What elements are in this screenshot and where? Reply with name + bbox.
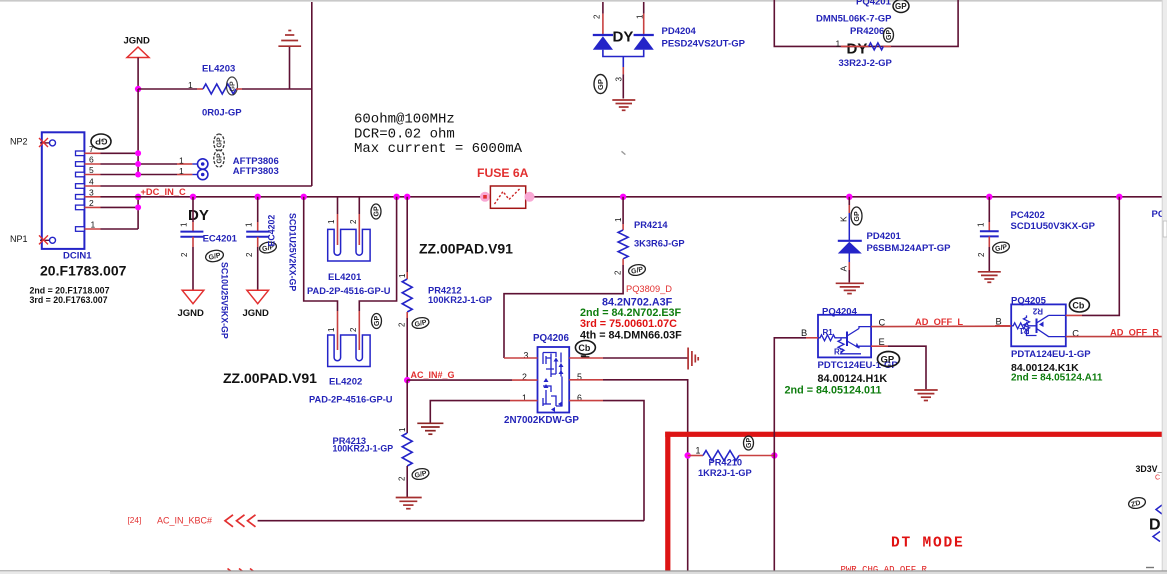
- stamp near PD4204 ground: [594, 75, 607, 94]
- stamp near EC4201: [205, 249, 225, 264]
- ground earth PQ4204 E: [914, 390, 938, 401]
- svg-text:GP: GP: [217, 137, 224, 147]
- svg-text:1: 1: [179, 156, 184, 166]
- stamp bottom right: [1128, 496, 1147, 510]
- NP2 no-pop marker: [10, 137, 56, 148]
- svg-text:2: 2: [89, 198, 94, 208]
- ground JGND EC4202: [243, 290, 270, 319]
- wire EL4203 to earth: [236, 88, 242, 90]
- svg-text:2: 2: [349, 219, 358, 224]
- pin1 wire PQ4206 to ground: [430, 393, 537, 423]
- svg-text:33R2J-2-GP: 33R2J-2-GP: [839, 58, 893, 69]
- svg-text:PR4210: PR4210: [709, 457, 743, 467]
- svg-text:1: 1: [327, 327, 336, 332]
- pad EL4201: [307, 197, 391, 296]
- svg-text:Cb: Cb: [578, 343, 590, 353]
- svg-text:JGND: JGND: [243, 308, 270, 319]
- svg-text:5: 5: [89, 165, 94, 175]
- fuse terminal right: [525, 192, 535, 202]
- svg-text:2: 2: [180, 252, 189, 257]
- svg-text:PQ3809_D: PQ3809_D: [626, 284, 672, 294]
- svg-text:R2: R2: [1032, 307, 1043, 316]
- ground earth sideways pin4: [688, 348, 698, 370]
- svg-text:GP: GP: [854, 211, 861, 221]
- block PQ4201 (cropped): [774, 0, 958, 46]
- stamp near connector: [91, 134, 111, 149]
- svg-text:SCD1U25V2KX-GP: SCD1U25V2KX-GP: [288, 213, 298, 291]
- svg-text:NP2: NP2: [10, 137, 28, 147]
- label DY (cropped right): [1146, 505, 1162, 568]
- pin red stubs DCIN1: [84, 153, 100, 229]
- svg-text:PQ4206: PQ4206: [533, 333, 570, 344]
- svg-text:GP: GP: [881, 355, 895, 366]
- svg-text:PAD-2P-4516-GP-U: PAD-2P-4516-GP-U: [307, 286, 391, 296]
- svg-text:100KR2J-1-GP: 100KR2J-1-GP: [428, 295, 492, 305]
- capacitor EC4202: [245, 197, 270, 290]
- wire C PQ4205 net AD_OFF_R: [1066, 327, 1163, 338]
- svg-text:1: 1: [188, 80, 193, 90]
- wire E PQ4205 from bus: [1066, 197, 1120, 316]
- stamp near PQ4205: [1069, 298, 1089, 312]
- svg-text:2: 2: [245, 252, 254, 257]
- svg-text:DY: DY: [847, 41, 868, 58]
- stamp near EC4202: [259, 241, 278, 255]
- resistor PR4214: [504, 197, 685, 358]
- stamp near PQ4201: [893, 0, 909, 13]
- capacitor EC4201: [180, 197, 238, 290]
- wire pin4 net vertical: [311, 2, 313, 186]
- pin number labels DCIN1: [89, 144, 96, 230]
- svg-text:GP: GP: [895, 2, 907, 11]
- svg-text:PQ4204: PQ4204: [822, 307, 858, 318]
- junction dots on DC bus: [190, 194, 1123, 200]
- svg-text:GP: GP: [886, 30, 893, 40]
- svg-text:R2: R2: [834, 348, 845, 357]
- junction dot AC_IN#_G: [404, 377, 410, 383]
- stamp near PQ4204: [878, 352, 900, 367]
- svg-text:PESD24VS2UT-GP: PESD24VS2UT-GP: [662, 39, 746, 50]
- wire pin4 horizontal: [101, 185, 312, 187]
- testpoint AFTP3806: [179, 156, 279, 170]
- border DT MODE thick red: [665, 432, 1167, 571]
- stamp near PQ4206: [575, 341, 595, 358]
- svg-text:K: K: [839, 216, 849, 222]
- svg-text:NP1: NP1: [10, 234, 28, 244]
- pin5 wire PQ4206: [569, 372, 688, 571]
- resistor PR4212: [398, 197, 493, 380]
- svg-text:P6SBMJ24APT-GP: P6SBMJ24APT-GP: [867, 243, 952, 254]
- svg-text:DCR=0.02 ohm: DCR=0.02 ohm: [354, 126, 455, 142]
- pad EL4202: [309, 327, 393, 405]
- testpoint AFTP3803: [179, 166, 279, 180]
- svg-text:2: 2: [398, 322, 407, 327]
- wire C PQ4204 net AD_OFF_L: [871, 317, 1011, 327]
- svg-text:0R0J-GP: 0R0J-GP: [202, 108, 242, 119]
- off-page net AC_IN_KBC#: [128, 515, 645, 527]
- svg-text:ZZ.00PAD.V91: ZZ.00PAD.V91: [419, 241, 513, 257]
- ground earth PD4201: [836, 283, 864, 293]
- junction dots connector column: [135, 150, 141, 210]
- svg-text:B: B: [801, 328, 807, 338]
- svg-text:PR4206: PR4206: [850, 26, 884, 37]
- svg-text:DMN5L06K-7-GP: DMN5L06K-7-GP: [816, 13, 892, 24]
- ground earth PR4213: [396, 498, 422, 509]
- svg-text:DY: DY: [188, 207, 209, 224]
- wire dc vertical pins 3-1: [137, 197, 139, 229]
- wire EL4202 branch left: [304, 197, 338, 311]
- svg-text:1: 1: [696, 446, 701, 456]
- svg-text:1KR2J-1-GP: 1KR2J-1-GP: [698, 468, 752, 478]
- svg-text:Max current = 6000mA: Max current = 6000mA: [354, 141, 523, 157]
- svg-text:2: 2: [593, 14, 602, 19]
- svg-text:GP: GP: [746, 438, 753, 448]
- pin2 wire PQ4206: [407, 372, 537, 382]
- pin4 wire PQ4206 to earth right: [569, 356, 688, 358]
- svg-text:PDTA124EU-1-GP: PDTA124EU-1-GP: [1011, 349, 1091, 360]
- NP1 no-pop marker: [10, 234, 56, 244]
- svg-text:3: 3: [615, 77, 624, 82]
- resistor PR4213: [333, 380, 413, 497]
- svg-text:PR4214: PR4214: [634, 220, 668, 230]
- mosfet PQ4206: [504, 333, 579, 426]
- svg-text:FUSE 6A: FUSE 6A: [477, 166, 529, 180]
- svg-text:2: 2: [398, 476, 407, 481]
- junction dot JGND node: [135, 86, 141, 92]
- svg-text:EC4202: EC4202: [267, 215, 277, 247]
- svg-text:GP: GP: [95, 137, 108, 147]
- svg-text:60ohm@100MHz: 60ohm@100MHz: [354, 112, 455, 128]
- svg-text:AD_OFF_L: AD_OFF_L: [915, 317, 963, 327]
- wire jgnd vertical pins 7-5: [137, 89, 139, 175]
- svg-text:2: 2: [977, 252, 986, 257]
- svg-text:2: 2: [614, 270, 623, 275]
- svg-text:PR4212: PR4212: [428, 285, 462, 295]
- stamp near PR4206: [884, 28, 894, 42]
- wire JGND node to resistor EL4203: [138, 88, 197, 90]
- chevron tips cropped bottom: [228, 569, 256, 573]
- svg-text:B: B: [996, 316, 1002, 326]
- ground earth PC4202: [978, 272, 1001, 283]
- ground earth PQ4206 pin1: [417, 423, 443, 434]
- svg-text:3K3R6J-GP: 3K3R6J-GP: [634, 238, 685, 248]
- pin6 wire PQ4206: [569, 393, 644, 521]
- wire pin2: [101, 206, 139, 208]
- ground JGND EC4201: [178, 290, 205, 319]
- svg-text:AD_OFF_R: AD_OFF_R: [1110, 327, 1159, 337]
- svg-text:PD4204: PD4204: [662, 26, 697, 37]
- stamp near PR4214: [628, 263, 647, 277]
- pin stubs of DCIN1: [76, 151, 85, 231]
- ground earth top (inverted): [278, 31, 301, 47]
- scrollbar right: [1162, 0, 1167, 574]
- svg-text:AFTP3803: AFTP3803: [233, 166, 279, 177]
- stamp near PR4212: [411, 316, 430, 330]
- stamp near PD4201: [851, 207, 862, 225]
- resistor PR4210: [685, 446, 778, 478]
- stamp pair near testpoints: [214, 134, 224, 167]
- svg-text:1: 1: [614, 217, 623, 222]
- svg-text:DCIN1: DCIN1: [63, 251, 92, 262]
- svg-text:1: 1: [179, 166, 184, 176]
- svg-text:+DC_IN_C: +DC_IN_C: [141, 187, 186, 197]
- svg-text:JGND: JGND: [124, 36, 151, 47]
- svg-text:100KR2J-1-GP: 100KR2J-1-GP: [333, 444, 394, 454]
- svg-text:1: 1: [977, 222, 986, 227]
- wire pin7: [101, 152, 139, 154]
- wire pin1: [101, 228, 139, 230]
- svg-text:3D3V_: 3D3V_: [1136, 464, 1163, 474]
- wire pin6 to testpoint: [101, 163, 178, 165]
- svg-text:AC_IN#_G: AC_IN#_G: [411, 370, 455, 380]
- fuse F terminal left: [480, 192, 490, 202]
- svg-text:PAD-2P-4516-GP-U: PAD-2P-4516-GP-U: [309, 395, 393, 405]
- stray tick: [622, 151, 626, 154]
- label 3D3V (cropped right): [1136, 464, 1163, 482]
- wire EL4202 branch right: [359, 197, 396, 311]
- svg-text:A: A: [839, 266, 849, 272]
- svg-text:2: 2: [349, 327, 358, 332]
- svg-text:2N7002KDW-GP: 2N7002KDW-GP: [504, 415, 579, 426]
- svg-text:PC4202: PC4202: [1011, 210, 1045, 221]
- wire pin5 to testpoint: [101, 174, 178, 176]
- svg-text:4th = 84.DMN66.03F: 4th = 84.DMN66.03F: [580, 329, 682, 341]
- top window border: [0, 0, 1167, 2]
- stamp near EL4203: [227, 77, 238, 95]
- resistor EL4203: [188, 64, 242, 119]
- svg-text:JGND: JGND: [178, 308, 205, 319]
- svg-text:PD4201: PD4201: [867, 231, 902, 242]
- capacitor PC4202: [977, 197, 1096, 271]
- wire B PQ4205: [995, 316, 1011, 326]
- alternate part list PQ3809: [580, 284, 682, 342]
- node JGND top: [124, 36, 151, 58]
- svg-text:AC_IN_KBC#: AC_IN_KBC#: [157, 515, 212, 525]
- svg-text:1: 1: [91, 220, 96, 230]
- svg-text:1: 1: [245, 222, 254, 227]
- svg-text:1: 1: [398, 427, 407, 432]
- svg-text:4: 4: [89, 177, 94, 187]
- svg-text:1: 1: [180, 222, 189, 227]
- resistor PR4206: [836, 26, 893, 69]
- svg-text:1: 1: [327, 219, 336, 224]
- stamp near EL4201: [371, 204, 381, 219]
- svg-text:2nd = 84.05124.A11: 2nd = 84.05124.A11: [1011, 373, 1103, 384]
- svg-text:1: 1: [398, 273, 407, 278]
- part number block DCIN1: [30, 263, 127, 306]
- svg-text:GP: GP: [374, 316, 381, 326]
- svg-text:20.F1783.007: 20.F1783.007: [40, 263, 127, 279]
- svg-text:EL4203: EL4203: [202, 64, 235, 75]
- svg-text:SCD1U50V3KX-GP: SCD1U50V3KX-GP: [1011, 221, 1096, 232]
- svg-text:C: C: [1155, 475, 1160, 482]
- svg-text:PQ4201: PQ4201: [856, 0, 892, 8]
- svg-text:EL4201: EL4201: [328, 272, 362, 283]
- wire B PQ4204: [774, 328, 818, 571]
- stamp near PC4202: [992, 241, 1011, 255]
- wire main DC bus: [101, 196, 1164, 198]
- svg-text:GP: GP: [596, 79, 605, 90]
- svg-text:[24]: [24]: [128, 515, 142, 525]
- svg-text:2nd = 20.F1718.007: 2nd = 20.F1718.007: [30, 286, 110, 296]
- connector DCIN1: [42, 132, 92, 261]
- svg-text:1: 1: [636, 14, 645, 19]
- scrollbar bottom: [0, 571, 1167, 574]
- svg-text:6: 6: [89, 155, 94, 165]
- diode PD4201: [838, 197, 951, 283]
- svg-text:GP: GP: [374, 206, 381, 216]
- svg-text:1: 1: [836, 39, 841, 49]
- wire E PQ4204 to ground: [871, 337, 926, 389]
- diode pair PD4204: [593, 2, 746, 99]
- svg-text:EL4202: EL4202: [329, 377, 362, 388]
- svg-text:D: D: [1149, 517, 1161, 534]
- svg-text:DY: DY: [613, 29, 634, 46]
- svg-text:EC4201: EC4201: [203, 234, 238, 245]
- svg-text:DT MODE: DT MODE: [891, 536, 965, 552]
- wire JGND triangle to junction: [137, 58, 139, 90]
- svg-text:GP: GP: [230, 81, 237, 91]
- svg-text:GP: GP: [217, 153, 224, 163]
- svg-text:ZZ.00PAD.V91: ZZ.00PAD.V91: [223, 370, 317, 386]
- svg-text:2nd = 84.05124.011: 2nd = 84.05124.011: [785, 385, 882, 397]
- svg-text:2nd = 84.2N702.E3F: 2nd = 84.2N702.E3F: [580, 307, 682, 319]
- ferrite note text: [354, 112, 523, 158]
- transistor PQ4204: [785, 307, 899, 397]
- svg-text:3rd = 20.F1763.007: 3rd = 20.F1763.007: [30, 295, 108, 305]
- svg-text:Cb: Cb: [1072, 301, 1084, 311]
- svg-text:84.00124.H1K: 84.00124.H1K: [818, 373, 888, 385]
- transistor PQ4205: [1011, 295, 1103, 383]
- stamp near PR4210: [744, 436, 754, 450]
- svg-text:SC10U25V5KX-GP: SC10U25V5KX-GP: [220, 262, 230, 339]
- stamp near PR4213: [411, 467, 430, 481]
- fuse body: [490, 186, 525, 208]
- ground earth PD4204: [612, 100, 635, 110]
- stamp near EL4202: [372, 314, 382, 329]
- pin3 wire PQ4206: [504, 350, 538, 360]
